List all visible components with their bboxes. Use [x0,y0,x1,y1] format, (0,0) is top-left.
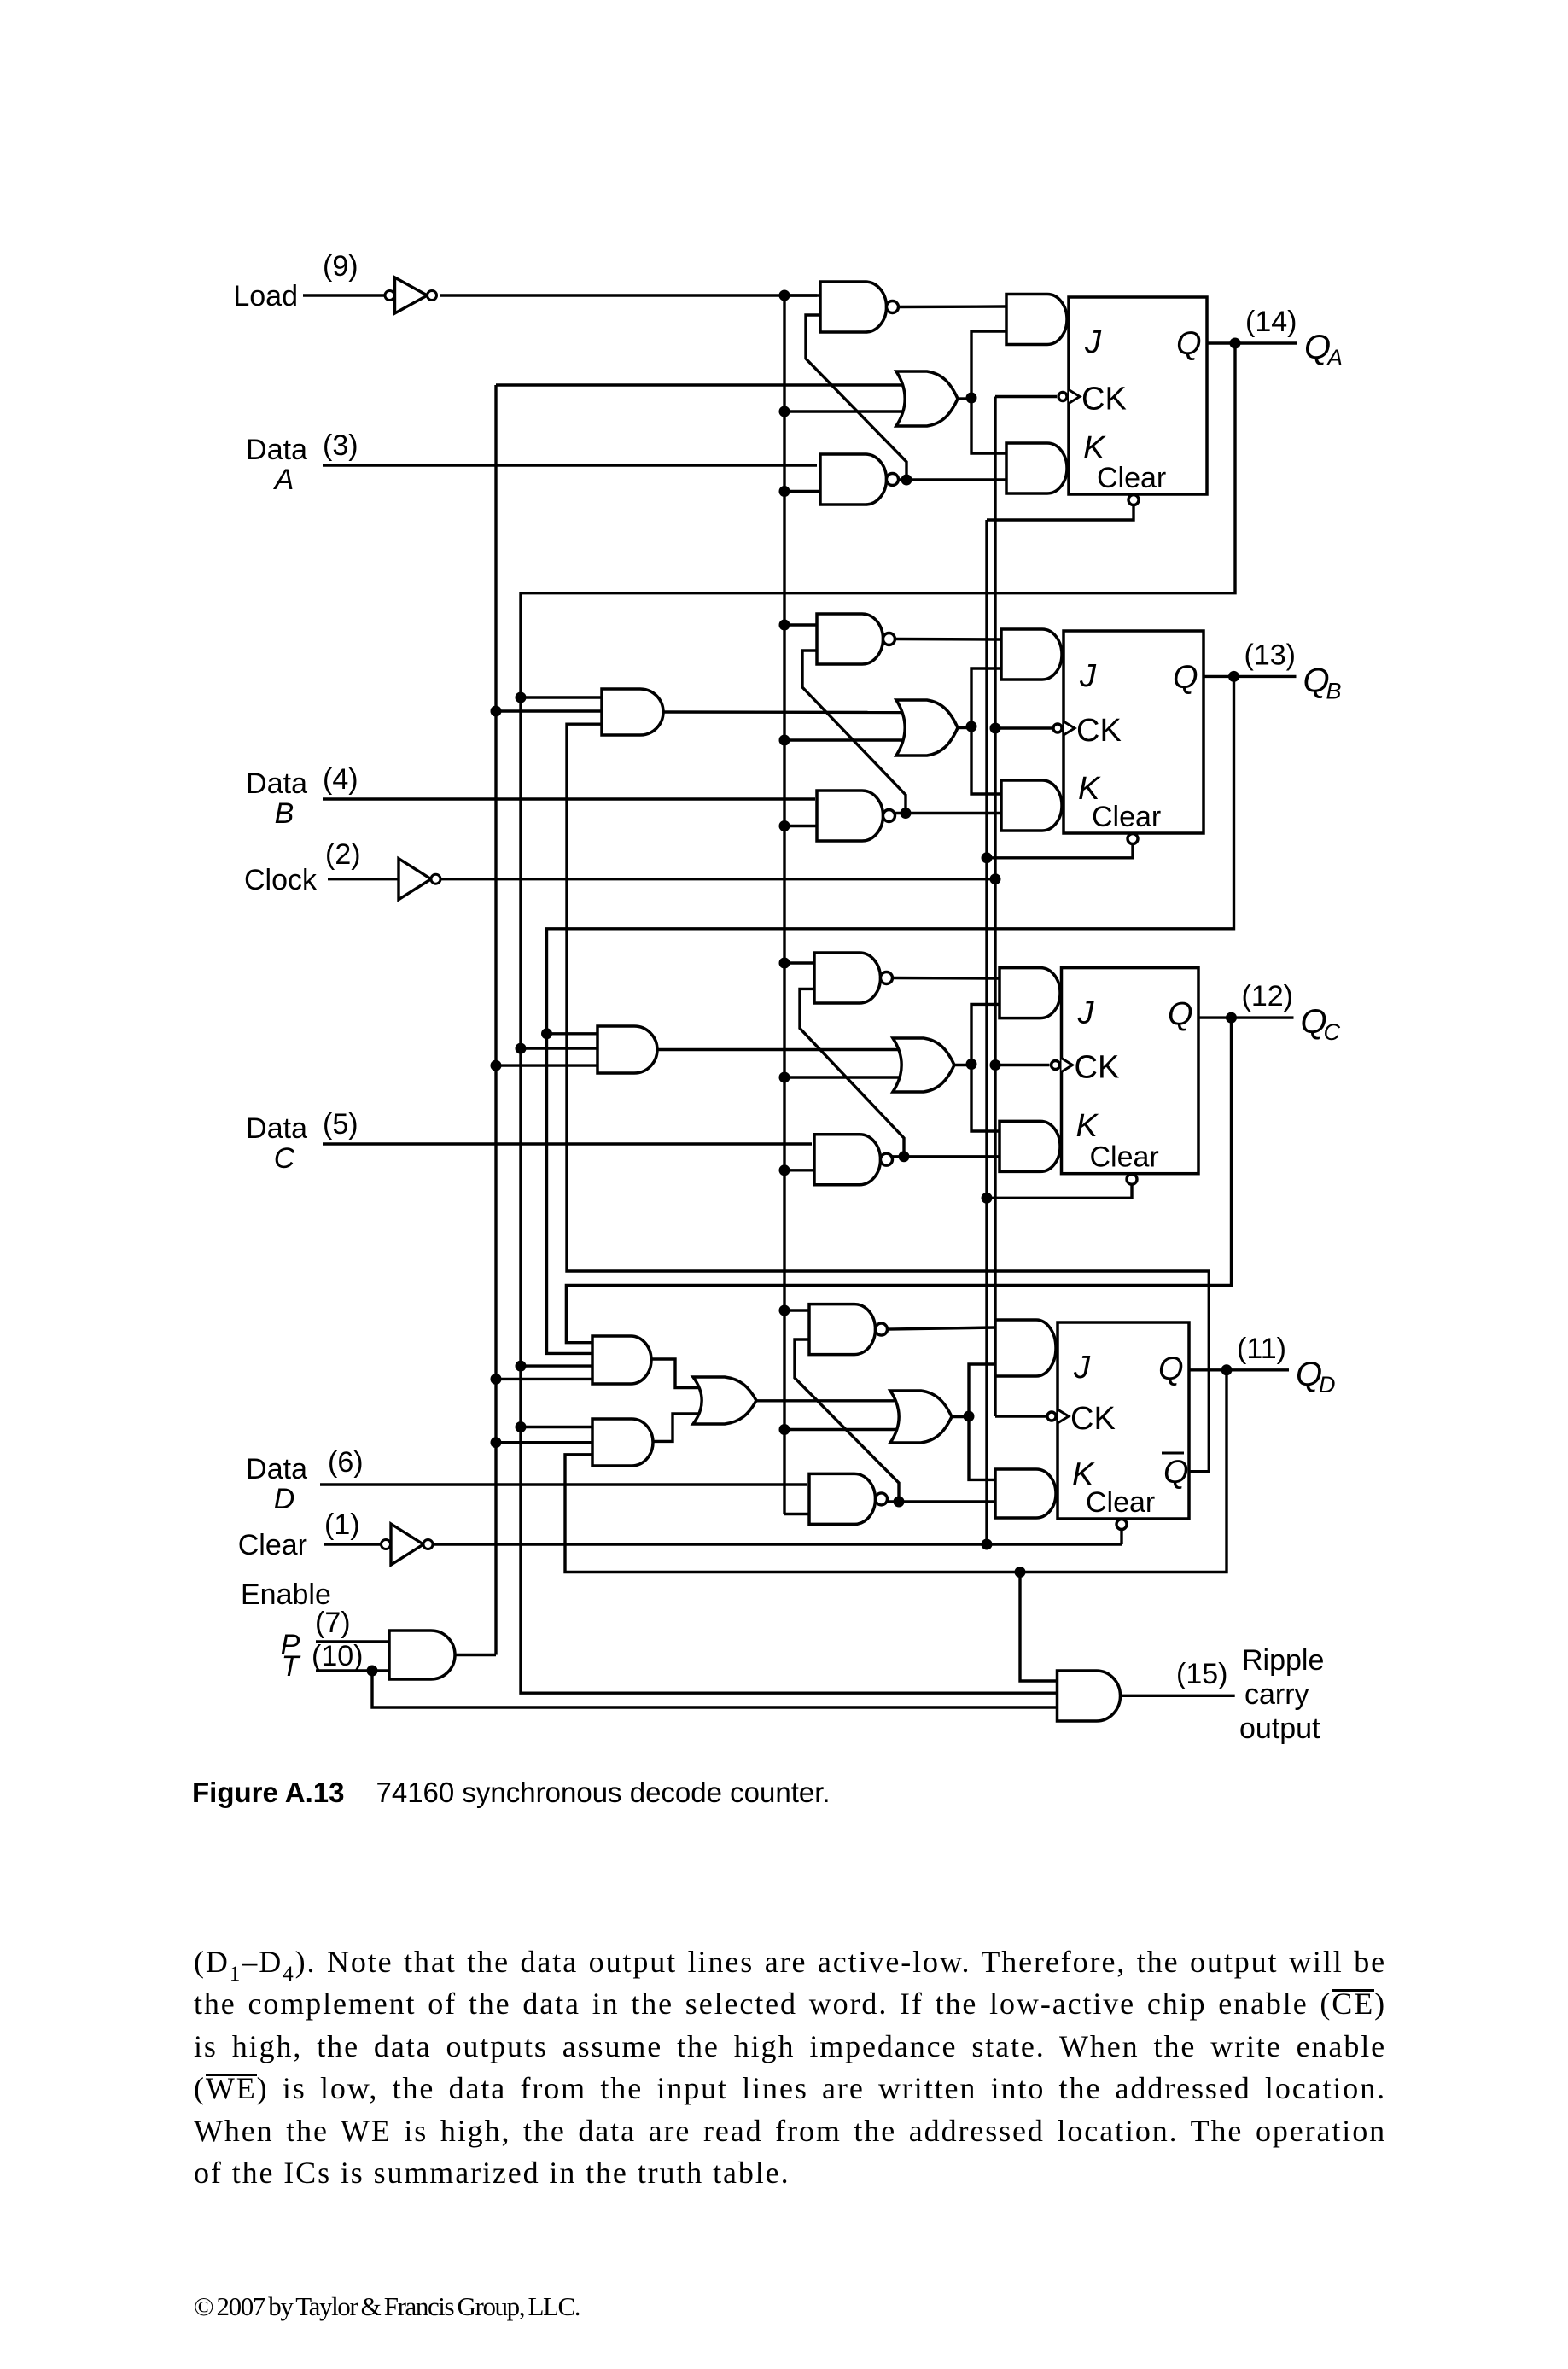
wire: OB output to J/K vertical [958,726,971,729]
AND gate G5 (stage D K enable, 3 input) [592,1419,653,1466]
bubble on ND1 output [876,1323,888,1335]
junction: clear bus dot stage C [982,1193,993,1204]
OR gate OC (stage C) [893,1038,954,1092]
label Load [233,280,298,312]
svg-text:(3): (3) [323,429,358,462]
svg-text:C: C [1324,1019,1341,1045]
junction: QA bus to G2 [516,692,527,703]
wire: Data B input line (pin 4) [323,797,815,800]
pin label (6) [328,1446,364,1479]
svg-text:(11): (11) [1237,1333,1286,1365]
svg-text:Data: Data [246,1453,307,1485]
inverter U3 on Clear input [382,1524,434,1565]
bubble on NB1 output [883,633,895,645]
wire: NA1 second input stub and cross-couple diagonal [806,315,906,480]
bubble on NA1 output [887,301,899,313]
junction: T input branch [367,1666,378,1677]
wire: ripple carry output (pin 15) [1121,1695,1235,1697]
OR gate G6 (stage D J/K combine) [693,1377,756,1424]
svg-text:D: D [274,1483,295,1515]
wire: QA feedback from flip-flop U4 output [521,343,1235,1693]
bubble on Clear input of stage A [1128,495,1139,505]
label QD [1296,1356,1336,1397]
junction: T bus to G3 [491,1060,502,1071]
wire: Data C input line (pin 5) [323,1142,812,1145]
svg-text:A: A [273,464,294,496]
NAND gate ND2 (stage D data input) [809,1473,876,1524]
svg-text:Q: Q [1168,997,1193,1033]
wire: Q output of stage D (pin (11)) [1189,1368,1289,1371]
wire: QB feedback from flip-flop U5 output [547,676,1234,1353]
svg-text:A: A [1326,345,1343,371]
label Data A [246,434,307,496]
wire: Data A input line (pin 3) [323,464,817,466]
pin label (11) [1237,1333,1286,1365]
label P [281,1629,300,1661]
junction: OD output node [964,1411,975,1422]
label Data D [246,1453,307,1515]
junction: NB2 output node [901,808,912,819]
AND gate G2 (stage B count enable) [602,689,663,735]
svg-text:CK: CK [1076,713,1122,749]
wire: NB1 second input stub and cross-couple diagonal [802,651,906,814]
svg-text:(13): (13) [1244,639,1296,671]
svg-text:Load: Load [233,280,298,312]
bubble on CK input stage D [1047,1412,1056,1421]
copyright line [194,2291,580,2322]
bubble on Clear input of stage D [1116,1520,1127,1530]
pin label (7) [315,1607,351,1639]
NAND gate NA1 (stage A load steer) [820,282,886,332]
svg-text:Q: Q [1158,1351,1184,1387]
wire: G2 output to stage B OR gate [663,710,906,714]
svg-text:output: output [1239,1713,1320,1745]
wire: Load bus taps for stage A [784,295,906,492]
bubble on ND2 output [876,1493,888,1505]
bubble on NA2 output [887,474,899,486]
AND gate G1 (Enable P.T) [389,1631,455,1679]
junction: NC2 output node [899,1151,910,1162]
wire: QC feedback from flip-flop U6 output [566,1018,1231,1343]
wire: clock bus (vertical) [994,397,996,1417]
junction: QC output node [1226,1012,1237,1024]
wire: J/K drive vertical stage D [969,1364,995,1479]
wire: OC output to J/K vertical [954,1064,971,1066]
AND gate G3 (stage C count enable) [597,1026,657,1073]
wire: Clear of stage D down to clear line [1120,1529,1122,1544]
svg-text:carry: carry [1244,1678,1309,1711]
svg-text:(7): (7) [315,1607,351,1639]
wire: G5 inputs from QA T QD [496,1427,592,1443]
wire: clock bus to CK of stage B [995,726,1052,729]
junction: QA bus to G4 [516,1361,527,1372]
wire: Clock input line (pin 2) [328,878,995,880]
svg-text:B: B [275,797,294,830]
wire: OD output to J/K vertical [952,1415,969,1418]
wire: Enable P input line (pin 7) [316,1640,389,1643]
wire: NC2 output to K AND gate [893,1155,1000,1158]
svg-text:K: K [1076,1108,1099,1144]
wire: Load bus (vertical) [783,295,785,1514]
svg-text:Data: Data [246,767,307,800]
wire: G2 inputs from QA and T buses and Q-bar D [496,697,602,711]
wire: enable T bus (vertical) [494,385,497,1655]
bubble on NC2 output [881,1153,893,1165]
wire: Load bus taps for stage B [784,625,906,826]
wire: J/K drive vertical stage B [971,668,1001,794]
pin label (15) [1176,1658,1227,1690]
pin label (2) [325,838,361,871]
wire: G3 output to stage C OR gate [657,1048,903,1051]
svg-text:Clear: Clear [1090,1141,1159,1174]
OR gate OA (stage A) [896,371,958,426]
wire: G1 output to enable bus [455,1654,496,1656]
svg-text:C: C [274,1142,295,1175]
junction: clear bus dot stage B [982,852,993,863]
svg-text:(1): (1) [324,1508,360,1541]
svg-text:Clear: Clear [1086,1486,1155,1519]
wire: Load bus taps for stage D [784,1310,901,1514]
label Data B [246,767,307,830]
pin label (1) [324,1508,360,1541]
svg-text:Clear: Clear [1092,801,1161,833]
label QB [1303,662,1342,703]
AND gate G4 (stage D J enable, 4 input) [592,1336,651,1384]
wire: OA output to J/K vertical [958,397,971,400]
OR gate OB (stage B) [896,700,958,756]
wire: Clear input line (pin 1) [324,1543,1122,1545]
wire: Load bus taps for stage C [784,963,903,1170]
label Clear [238,1529,307,1561]
wire: clock bus to CK of stage A [995,395,1057,398]
svg-text:(5): (5) [323,1108,358,1141]
pin label (10) [312,1640,363,1672]
svg-text:(10): (10) [312,1640,363,1672]
wire: Q output of stage C (pin (12)) [1198,1016,1294,1018]
svg-text:Ripple: Ripple [1242,1644,1324,1677]
inverter U2 on Clock input [399,859,440,900]
bubble on NB2 output [883,810,895,822]
bubble on CK input stage C [1052,1061,1060,1070]
wire: clock bus to CK of stage D [995,1415,1046,1417]
junction: clock line joins clock bus [990,873,1001,884]
svg-text:(12): (12) [1242,980,1293,1012]
svg-text:Q: Q [1173,660,1198,696]
wire: Clear of stage B to clear bus [987,843,1133,858]
label QC [1301,1003,1341,1045]
wire: G6 output to stage D clock OR gate [756,1399,901,1402]
svg-text:(4): (4) [323,763,358,796]
svg-text:Data: Data [246,434,307,466]
label T [282,1650,301,1683]
svg-text:Clear: Clear [1097,462,1166,494]
wire: Load input line (pin 9) [303,294,817,296]
wire: ND2 output to K AND gate [888,1500,996,1503]
wire: Clear of stage A to clear bus [987,505,1134,520]
svg-text:(6): (6) [328,1446,364,1479]
JK flip-flop U6 (stage C) [1062,968,1199,1174]
junction: QB bus to G3 [541,1028,552,1039]
wire: G5 output to OR gate G6 [653,1414,700,1441]
pin label (14) [1245,306,1297,338]
AND gate KC (K input gate) [1000,1121,1060,1171]
svg-text:Q: Q [1176,326,1202,362]
OR gate OD (stage D) [890,1391,952,1443]
pin label (9) [323,250,358,283]
junction: clear bus joins clear line [982,1539,993,1550]
wire: NB1 output to J AND gate [895,638,1002,641]
svg-text:(14): (14) [1245,306,1297,338]
wire: QD branch down to ripple-carry AND gate [1020,1573,1058,1682]
junction: OC output node [966,1059,977,1070]
junction: OA output node [966,393,977,404]
AND gate JD (J input gate) [995,1320,1056,1376]
wire: T enable branch to ripple-carry AND gate [372,1671,1058,1707]
svg-text:Clock: Clock [244,864,318,896]
wire: NA1 output to J AND gate [899,305,1007,308]
AND gate KD (K input gate) [995,1469,1056,1518]
svg-text:J: J [1077,995,1095,1031]
NAND gate NB1 (stage B load steer) [817,614,883,664]
junction: load bus dots stage C [779,958,790,1176]
wire: Q-bar D feedback from flip-flop U7 [567,724,1209,1471]
wire: NC1 output to J AND gate [893,977,1000,980]
junction: T bus to G2 [491,706,502,717]
wire: Data D input line (pin 6) [320,1483,807,1485]
svg-text:(2): (2) [325,838,361,871]
wire: QD feedback from flip-flop U7 output [565,1370,1227,1573]
junction: QD feedback to ripple-carry branch [1015,1567,1026,1578]
pin label (5) [323,1108,358,1141]
svg-text:D: D [1319,1372,1336,1397]
bubble on NC1 output [881,972,893,984]
junction: T bus to G5 [491,1437,502,1448]
JK flip-flop U4 (stage A) [1069,297,1207,494]
pin label (4) [323,763,358,796]
junction: load bus dots stage D [779,1305,790,1436]
NAND gate NB2 (stage B data input) [817,791,883,841]
NAND gate NC1 (stage C load steer) [814,953,881,1003]
bubble on Clear input of stage C [1127,1174,1137,1184]
wire: Q output of stage B (pin (13)) [1204,675,1297,678]
wire: G4 output to OR gate G6 [651,1359,700,1388]
svg-text:K: K [1083,430,1106,466]
junction: QA bus to G5 [516,1421,527,1432]
wire: NA2 output to K AND gate [899,478,1007,481]
junction: QB output node [1228,671,1239,682]
label Data C [246,1112,307,1175]
pin label (3) [323,429,358,462]
junction: OB output node [966,721,977,732]
wire: J/K drive vertical stage C [971,1004,1000,1131]
svg-text:CK: CK [1070,1401,1116,1437]
AND gate G7 (ripple carry output) [1058,1671,1121,1721]
AND gate KB (K input gate) [1001,780,1062,831]
figure caption [192,1777,831,1809]
junction: load bus dots stage B [779,620,790,832]
junction: T bus to G4 [491,1374,502,1385]
junction: QD output node [1221,1364,1233,1375]
wire: Enable T input line (pin 10) [316,1669,389,1672]
NAND gate NC2 (stage C data input) [814,1135,881,1185]
wire: ND1 output to J AND gate [888,1327,996,1329]
svg-text:Q: Q [1163,1455,1189,1491]
label QA [1304,329,1343,371]
junction: clock bus dot stage B [990,723,1001,734]
svg-text:T: T [282,1650,301,1683]
label Ripple carry output [1239,1644,1324,1745]
wire: G4 inputs from QC QB QA T [496,1366,592,1379]
NAND gate NA2 (stage A data input) [820,454,886,505]
AND gate KA (K input gate) [1006,443,1067,493]
JK flip-flop U7 (stage D) [1058,1322,1189,1519]
label Clock [244,864,318,896]
svg-text:CK: CK [1081,382,1127,417]
label Enable [241,1578,331,1611]
bubble on CK input stage B [1053,724,1062,732]
NAND gate ND1 (stage D load steer) [809,1304,876,1355]
junction: ND2 output node [894,1497,905,1508]
junction: clock bus dot stage C [990,1059,1001,1071]
wire: clear bus (vertical) [985,520,988,1544]
junction: load bus dots stage A [779,290,790,498]
junction: QA output node [1230,338,1241,349]
wire: NB2 output to K AND gate [895,812,1002,814]
wire: G3 inputs from QB QA T buses [496,1034,597,1065]
wire: NC1 second input stub and cross-couple diagonal [800,989,904,1156]
wire: J/K drive vertical stage A [971,331,1006,453]
bubble on Clear input of stage B [1128,834,1138,844]
svg-text:B: B [1326,678,1342,703]
svg-text:Clear: Clear [238,1529,307,1561]
svg-text:(9): (9) [323,250,358,283]
inverter U1 on Load input [385,277,437,313]
AND gate JB (J input gate) [1001,629,1062,680]
junction: QA bus to G3 [516,1043,527,1054]
bubble on CK input stage A [1058,393,1067,401]
wire: clock bus to CK of stage C [995,1064,1050,1066]
pin label (13) [1244,639,1296,671]
junction: NA2 output node [901,475,912,486]
svg-text:J: J [1079,658,1097,694]
AND gate JC (J input gate) [1000,968,1060,1018]
svg-text:(15): (15) [1176,1658,1227,1690]
wire: Q output of stage A (pin (14)) [1207,341,1297,344]
wire: ND1 second input stub and cross-couple diagonal [795,1339,899,1502]
svg-text:J: J [1084,324,1102,360]
svg-text:Data: Data [246,1112,307,1145]
pin label (12) [1242,980,1293,1012]
body paragraph [194,1941,1386,2194]
wire: T bus top branch to OR gate of stage A [496,383,906,386]
svg-text:J: J [1073,1350,1091,1386]
JK flip-flop U5 (stage B) [1064,631,1204,833]
AND gate JA (J input gate) [1006,295,1067,345]
wire: Clear of stage C to clear bus [987,1184,1132,1199]
svg-text:CK: CK [1075,1050,1120,1086]
